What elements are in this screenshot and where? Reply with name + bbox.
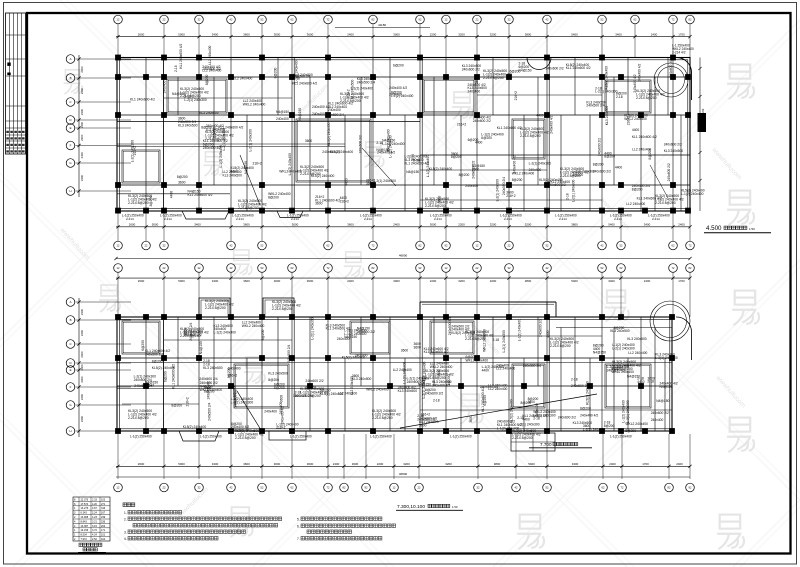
svg-text:3600: 3600 xyxy=(315,202,323,206)
svg-text:240x600 2/2: 240x600 2/2 xyxy=(539,319,543,337)
svg-text:3200: 3200 xyxy=(525,223,532,227)
svg-text:17.574: 17.574 xyxy=(81,503,89,506)
svg-text:2.24: 2.24 xyxy=(92,512,97,515)
svg-text:2-18: 2-18 xyxy=(647,380,654,384)
svg-text:240x500 2/4: 240x500 2/4 xyxy=(448,317,452,335)
svg-text:216+2: 216+2 xyxy=(457,122,466,126)
svg-text:8@200: 8@200 xyxy=(593,163,604,167)
svg-text:8@200: 8@200 xyxy=(152,359,163,363)
svg-text:KL5(2) 240x400: KL5(2) 240x400 xyxy=(152,366,176,370)
svg-text:3800: 3800 xyxy=(525,32,532,36)
svg-text:3600: 3600 xyxy=(243,32,250,36)
svg-text:3600: 3600 xyxy=(475,76,479,84)
svg-text:4400: 4400 xyxy=(344,178,348,186)
svg-text:4400: 4400 xyxy=(170,191,174,199)
svg-text:2200: 2200 xyxy=(430,279,437,283)
svg-text:3600: 3600 xyxy=(243,223,250,227)
svg-text:L-2(1) 240x300: L-2(1) 240x300 xyxy=(311,317,315,340)
svg-text:240x500 2/4: 240x500 2/4 xyxy=(199,377,217,381)
svg-text:271: 271 xyxy=(101,503,106,506)
svg-text:8@200: 8@200 xyxy=(227,367,231,378)
svg-text:4.24: 4.24 xyxy=(92,534,97,537)
svg-text:2-214 8@200: 2-214 8@200 xyxy=(205,306,226,310)
svg-text:B: B xyxy=(70,318,72,322)
svg-text:8@200: 8@200 xyxy=(512,178,523,182)
svg-text:240x500 2/4: 240x500 2/4 xyxy=(571,384,589,388)
svg-text:2.52: 2.52 xyxy=(92,538,97,541)
svg-text:4.23: 4.23 xyxy=(92,516,97,519)
svg-text:171: 171 xyxy=(101,529,106,532)
svg-text:8@200: 8@200 xyxy=(233,386,237,397)
svg-text:L-1(2) 250x400: L-1(2) 250x400 xyxy=(370,435,392,439)
svg-text:2400: 2400 xyxy=(80,108,84,115)
svg-text:3600: 3600 xyxy=(419,423,427,427)
svg-text:4.: 4. xyxy=(124,537,127,541)
svg-text:240x400: 240x400 xyxy=(465,184,478,188)
svg-text:2200: 2200 xyxy=(377,462,384,466)
svg-text:216+2: 216+2 xyxy=(514,91,518,100)
svg-text:46800: 46800 xyxy=(399,472,408,476)
svg-text:3600: 3600 xyxy=(469,415,473,423)
svg-text:3000: 3000 xyxy=(352,462,359,466)
svg-text:3800: 3800 xyxy=(494,462,501,466)
svg-text:8@200: 8@200 xyxy=(201,125,212,129)
svg-text:KL3 240x500: KL3 240x500 xyxy=(605,106,609,126)
svg-text:A: A xyxy=(70,57,72,61)
svg-text:240x500 2/4: 240x500 2/4 xyxy=(502,177,506,195)
svg-text:2-214 8@200: 2-214 8@200 xyxy=(425,204,446,208)
svg-text:103: 103 xyxy=(101,498,106,501)
svg-text:C: C xyxy=(69,100,71,104)
svg-text:3400: 3400 xyxy=(644,223,651,227)
svg-text:2-214: 2-214 xyxy=(434,217,442,221)
svg-text:L-2(1) 240x300: L-2(1) 240x300 xyxy=(184,98,207,102)
svg-text:216+2: 216+2 xyxy=(626,116,630,125)
svg-text:N4@150: N4@150 xyxy=(660,385,673,389)
svg-text:3600: 3600 xyxy=(307,279,314,283)
svg-text:2-214 8@200: 2-214 8@200 xyxy=(372,416,393,420)
svg-text:240x400: 240x400 xyxy=(162,80,166,93)
svg-text:8@200: 8@200 xyxy=(625,429,636,433)
svg-text:6@200: 6@200 xyxy=(141,340,145,351)
svg-text:8@200: 8@200 xyxy=(632,188,643,192)
svg-text:8@200: 8@200 xyxy=(614,326,625,330)
svg-text:216+2: 216+2 xyxy=(340,200,349,204)
svg-text:D: D xyxy=(69,361,71,365)
svg-text:2-214 8@200: 2-214 8@200 xyxy=(520,134,541,138)
svg-text:240x400 4/2: 240x400 4/2 xyxy=(512,155,516,173)
svg-text:KL1 240x600 4/2: KL1 240x600 4/2 xyxy=(179,44,183,69)
svg-text:2-214 8@200: 2-214 8@200 xyxy=(636,96,657,100)
svg-text:KL3 240x500: KL3 240x500 xyxy=(178,124,198,128)
svg-text:3600: 3600 xyxy=(347,223,354,227)
svg-text:KL1 240x600 4/2: KL1 240x600 4/2 xyxy=(292,81,317,85)
svg-text:KL1 240x600 4/2: KL1 240x600 4/2 xyxy=(130,98,155,102)
svg-text:E: E xyxy=(70,368,72,372)
svg-text:L-1(2) 250x400: L-1(2) 250x400 xyxy=(610,435,632,439)
svg-text:6@200: 6@200 xyxy=(393,64,404,68)
svg-text:KL3 240x500: KL3 240x500 xyxy=(664,149,684,153)
svg-text:6.: 6. xyxy=(297,525,300,529)
svg-text:2400: 2400 xyxy=(80,134,84,141)
svg-text:240x500 2/4: 240x500 2/4 xyxy=(523,364,541,368)
svg-text:LL2 240x400: LL2 240x400 xyxy=(632,148,651,152)
svg-text:240x600 2/2: 240x600 2/2 xyxy=(664,142,682,146)
svg-text:2600: 2600 xyxy=(129,223,136,227)
svg-text:240x400 4/2: 240x400 4/2 xyxy=(580,413,598,417)
svg-text:5.: 5. xyxy=(297,518,300,522)
svg-text:2-214 8@200: 2-214 8@200 xyxy=(465,337,486,341)
svg-text:3200: 3200 xyxy=(458,279,465,283)
svg-text:240x400: 240x400 xyxy=(264,409,277,413)
svg-text:L-2(1) 240x300: L-2(1) 240x300 xyxy=(248,129,252,152)
svg-text:240x400: 240x400 xyxy=(312,112,325,116)
svg-text:240x400 4/2: 240x400 4/2 xyxy=(203,146,221,150)
svg-text:2-214 8@200: 2-214 8@200 xyxy=(512,436,533,440)
svg-text:3400: 3400 xyxy=(615,32,622,36)
svg-text:240x600 2/2: 240x600 2/2 xyxy=(203,67,221,71)
svg-text:L-1(2) 240x400: L-1(2) 240x400 xyxy=(391,94,414,98)
svg-text:2-214: 2-214 xyxy=(164,217,172,221)
svg-text:2400: 2400 xyxy=(80,66,84,73)
svg-text:2-214 8@200: 2-214 8@200 xyxy=(612,367,633,371)
svg-text:2400: 2400 xyxy=(347,279,354,283)
svg-text:240x600 2/2: 240x600 2/2 xyxy=(305,379,323,383)
svg-text:2-18: 2-18 xyxy=(571,377,578,381)
svg-text:2-18: 2-18 xyxy=(174,65,178,72)
svg-text:2-214 8@200: 2-214 8@200 xyxy=(300,172,321,176)
svg-text:N4@150: N4@150 xyxy=(244,161,248,174)
svg-text:3000: 3000 xyxy=(393,32,400,36)
svg-text:202: 202 xyxy=(101,525,106,528)
svg-text:240x500 2/4: 240x500 2/4 xyxy=(586,104,604,108)
svg-text:3000: 3000 xyxy=(274,462,281,466)
svg-text:167: 167 xyxy=(101,512,106,515)
svg-text:5400: 5400 xyxy=(571,32,578,36)
svg-text:KL3 240x500: KL3 240x500 xyxy=(203,366,223,370)
svg-text:2-18: 2-18 xyxy=(433,399,440,403)
svg-text:3200: 3200 xyxy=(490,279,497,283)
svg-text:L-2(1) 240x300: L-2(1) 240x300 xyxy=(502,330,506,353)
svg-text:240x600 2/2: 240x600 2/2 xyxy=(548,183,566,187)
svg-text:2-214: 2-214 xyxy=(364,217,372,221)
svg-text:240x600 2/2: 240x600 2/2 xyxy=(462,67,480,71)
svg-text:240x400: 240x400 xyxy=(468,90,481,94)
svg-text:2400: 2400 xyxy=(80,152,84,159)
svg-text:KL5(2) 240x400: KL5(2) 240x400 xyxy=(510,399,514,423)
svg-text:240x400 4/2: 240x400 4/2 xyxy=(637,63,641,81)
svg-text:2400: 2400 xyxy=(651,32,658,36)
svg-text:1.: 1. xyxy=(124,511,127,515)
svg-text:1:50: 1:50 xyxy=(452,505,458,509)
svg-text:7.700: 7.700 xyxy=(540,442,552,447)
svg-text:7.300,10.100: 7.300,10.100 xyxy=(397,504,425,510)
svg-text:2400: 2400 xyxy=(80,174,84,181)
svg-text:2200: 2200 xyxy=(458,223,465,227)
svg-text:240x600 2/2: 240x600 2/2 xyxy=(357,330,375,334)
svg-text:3600: 3600 xyxy=(243,462,250,466)
svg-text:G: G xyxy=(69,161,71,165)
svg-text:249: 249 xyxy=(101,516,106,519)
svg-text:240x600 2/2: 240x600 2/2 xyxy=(473,119,491,123)
svg-text:KL5(2) 240x400: KL5(2) 240x400 xyxy=(429,167,453,171)
svg-text:N4@150: N4@150 xyxy=(406,170,419,174)
svg-text:2400: 2400 xyxy=(80,308,84,315)
svg-text:LL2 240x400: LL2 240x400 xyxy=(626,202,645,206)
svg-text:6@200: 6@200 xyxy=(481,136,492,140)
svg-text:KL5(2) 240x400: KL5(2) 240x400 xyxy=(183,425,207,429)
svg-text:3000: 3000 xyxy=(274,279,281,283)
svg-text:12.373: 12.373 xyxy=(81,498,89,501)
svg-text:N4@150: N4@150 xyxy=(199,341,203,354)
svg-text:240x600 2/2: 240x600 2/2 xyxy=(358,135,362,153)
svg-text:240x500 2/4: 240x500 2/4 xyxy=(357,81,375,85)
svg-text:2200: 2200 xyxy=(430,32,437,36)
svg-text:240x400 4/2: 240x400 4/2 xyxy=(207,381,211,399)
svg-text:3200: 3200 xyxy=(458,32,465,36)
svg-text:L-2(1) 240x300: L-2(1) 240x300 xyxy=(655,356,678,360)
svg-text:216+2: 216+2 xyxy=(421,412,430,416)
svg-text:C: C xyxy=(69,342,71,346)
svg-text:3.21: 3.21 xyxy=(92,520,97,523)
svg-text:2-214 8@200: 2-214 8@200 xyxy=(238,206,259,210)
svg-text:240x600 2/2: 240x600 2/2 xyxy=(322,150,340,154)
svg-text:L-1(2) 240x400: L-1(2) 240x400 xyxy=(214,331,237,335)
svg-text:8@200: 8@200 xyxy=(268,196,279,200)
svg-text:8@200: 8@200 xyxy=(171,403,182,407)
svg-text:4.67: 4.67 xyxy=(92,507,97,510)
svg-text:8@200: 8@200 xyxy=(177,175,188,179)
svg-text:N4@150: N4@150 xyxy=(656,399,669,403)
svg-text:240x600 2/2: 240x600 2/2 xyxy=(651,411,669,415)
svg-text:2-214 8@200: 2-214 8@200 xyxy=(128,416,149,420)
svg-text:3600: 3600 xyxy=(528,400,536,404)
svg-text:3600: 3600 xyxy=(414,346,422,350)
svg-text:8@200: 8@200 xyxy=(604,424,615,428)
svg-text:H: H xyxy=(69,429,71,433)
svg-text:216+2: 216+2 xyxy=(253,161,262,165)
svg-text:KL5(2) 240x400: KL5(2) 240x400 xyxy=(342,356,366,360)
svg-text:240x500 2/4: 240x500 2/4 xyxy=(287,344,291,362)
svg-text:2-18: 2-18 xyxy=(566,193,570,200)
svg-text:240x500 2/4: 240x500 2/4 xyxy=(326,113,344,117)
svg-text:2400: 2400 xyxy=(80,329,84,336)
svg-text:2400: 2400 xyxy=(678,223,685,227)
svg-text:5400: 5400 xyxy=(528,462,535,466)
svg-text:4400: 4400 xyxy=(637,380,645,384)
svg-text:6@200: 6@200 xyxy=(468,138,479,142)
svg-text:2600: 2600 xyxy=(138,279,145,283)
svg-text:8@200: 8@200 xyxy=(274,67,278,78)
svg-text:1:50: 1:50 xyxy=(749,227,755,231)
svg-text:3400: 3400 xyxy=(608,279,615,283)
svg-text:2-214 8@200: 2-214 8@200 xyxy=(272,307,293,311)
svg-text:236: 236 xyxy=(101,520,106,523)
svg-text:3400: 3400 xyxy=(212,32,219,36)
svg-text:5000: 5000 xyxy=(178,462,185,466)
svg-text:3.: 3. xyxy=(124,531,127,535)
svg-text:216+2: 216+2 xyxy=(145,384,154,388)
svg-text:7.: 7. xyxy=(297,537,300,541)
svg-text:L-1(2) 240x400: L-1(2) 240x400 xyxy=(517,319,521,342)
svg-text:3.72: 3.72 xyxy=(92,529,97,532)
svg-text:N4@150: N4@150 xyxy=(298,108,302,121)
svg-text:2-214: 2-214 xyxy=(126,217,134,221)
svg-text:2-214 8@200: 2-214 8@200 xyxy=(550,344,571,348)
svg-text:L-1(2) 240x400: L-1(2) 240x400 xyxy=(295,60,299,83)
svg-text:L-2(1) 240x300: L-2(1) 240x300 xyxy=(529,161,552,165)
svg-text:G: G xyxy=(69,403,71,407)
svg-text:L-2(1) 240x300: L-2(1) 240x300 xyxy=(583,428,606,432)
svg-text:4400: 4400 xyxy=(632,128,640,132)
svg-text:8@200: 8@200 xyxy=(451,155,462,159)
svg-text:WKL2 240x400: WKL2 240x400 xyxy=(242,324,265,328)
svg-text:240x400: 240x400 xyxy=(328,108,341,112)
svg-text:3800: 3800 xyxy=(525,279,532,283)
svg-text:8@200: 8@200 xyxy=(459,173,470,177)
svg-text:KL1 240x600 4/2: KL1 240x600 4/2 xyxy=(497,126,522,130)
svg-text:2.33: 2.33 xyxy=(92,498,97,501)
svg-text:240x400: 240x400 xyxy=(279,402,283,415)
svg-text:6.343: 6.343 xyxy=(81,512,88,515)
svg-text:2-214 8@200: 2-214 8@200 xyxy=(205,137,226,141)
svg-text:A: A xyxy=(70,300,72,304)
svg-text:2400: 2400 xyxy=(347,32,354,36)
svg-text:2-214 4/2: 2-214 4/2 xyxy=(672,51,686,55)
svg-text:2-214 8@200: 2-214 8@200 xyxy=(655,201,676,205)
svg-text:3000: 3000 xyxy=(430,223,437,227)
svg-text:8@200: 8@200 xyxy=(268,378,279,382)
svg-text:240x400 4/2: 240x400 4/2 xyxy=(432,384,450,388)
svg-text:KL3 240x500: KL3 240x500 xyxy=(223,173,243,177)
svg-text:240x600 2/2: 240x600 2/2 xyxy=(667,163,671,181)
svg-text:3600: 3600 xyxy=(307,462,314,466)
svg-text:2400: 2400 xyxy=(644,279,651,283)
svg-text:LL2 240x400: LL2 240x400 xyxy=(488,387,507,391)
svg-text:13.908: 13.908 xyxy=(81,516,89,519)
svg-text:2600: 2600 xyxy=(138,462,145,466)
svg-text:L-2(1) 240x300: L-2(1) 240x300 xyxy=(595,90,618,94)
svg-text:KL3 240x500: KL3 240x500 xyxy=(199,111,219,115)
svg-text:41180: 41180 xyxy=(378,23,386,27)
svg-text:2-214: 2-214 xyxy=(236,217,244,221)
svg-text:4.500: 4.500 xyxy=(706,225,722,232)
svg-text:216+2: 216+2 xyxy=(276,426,285,430)
svg-text:L-2(1) 240x300: L-2(1) 240x300 xyxy=(374,179,397,183)
svg-text:2400: 2400 xyxy=(393,223,400,227)
svg-text:2-18: 2-18 xyxy=(493,338,500,342)
svg-text:6@200: 6@200 xyxy=(580,407,591,411)
svg-text:L-2(1) 240x300: L-2(1) 240x300 xyxy=(572,179,576,202)
svg-text:N4@150: N4@150 xyxy=(276,110,289,114)
svg-text:2400: 2400 xyxy=(80,393,84,400)
svg-text:H: H xyxy=(69,189,71,193)
svg-text:2-214 8@200: 2-214 8@200 xyxy=(128,201,149,205)
svg-text:104: 104 xyxy=(101,538,106,541)
svg-text:4.20: 4.20 xyxy=(92,503,97,506)
svg-text:L-1(2) 250x400: L-1(2) 250x400 xyxy=(290,435,312,439)
svg-text:3200: 3200 xyxy=(490,223,497,227)
svg-text:L-1(2) 240x400: L-1(2) 240x400 xyxy=(681,192,704,196)
svg-text:6@200: 6@200 xyxy=(274,386,285,390)
svg-text:2.: 2. xyxy=(124,518,127,522)
svg-text:2400: 2400 xyxy=(676,462,683,466)
svg-text:2-214 8@200: 2-214 8@200 xyxy=(180,334,201,338)
svg-text:WKL2 240x400: WKL2 240x400 xyxy=(625,422,648,426)
svg-text:3.15: 3.15 xyxy=(92,525,97,528)
svg-text:240x400: 240x400 xyxy=(276,117,289,121)
svg-text:4400: 4400 xyxy=(536,113,544,117)
svg-text:1700: 1700 xyxy=(642,462,649,466)
svg-text:F: F xyxy=(70,144,72,148)
svg-text:13.387: 13.387 xyxy=(81,525,89,528)
svg-text:101: 101 xyxy=(101,534,106,537)
svg-text:216+2: 216+2 xyxy=(133,146,137,155)
svg-text:3000: 3000 xyxy=(393,279,400,283)
svg-text:WKL2 240x400: WKL2 240x400 xyxy=(466,358,489,362)
svg-text:2-18: 2-18 xyxy=(517,416,524,420)
svg-text:L-1(2) 250x400: L-1(2) 250x400 xyxy=(130,435,152,439)
svg-text:2400: 2400 xyxy=(333,462,340,466)
svg-text:8@200: 8@200 xyxy=(261,329,265,340)
svg-text:3000: 3000 xyxy=(292,223,299,227)
svg-text:KL1 240x600 4/2: KL1 240x600 4/2 xyxy=(326,327,351,331)
svg-text:L-2(1) 240x300: L-2(1) 240x300 xyxy=(517,423,540,427)
svg-text:2400: 2400 xyxy=(80,351,84,358)
svg-text:2-214 8@200: 2-214 8@200 xyxy=(300,394,321,398)
svg-text:240x400 4/2: 240x400 4/2 xyxy=(550,115,554,133)
svg-text:L-1(2) 240x400: L-1(2) 240x400 xyxy=(621,400,625,423)
svg-text:216+2: 216+2 xyxy=(506,194,515,198)
svg-text:2-18: 2-18 xyxy=(533,417,540,421)
svg-text:KL3 240x500: KL3 240x500 xyxy=(627,337,647,341)
svg-text:240x600 2/2: 240x600 2/2 xyxy=(471,160,475,178)
svg-text:LL2 240x400: LL2 240x400 xyxy=(393,368,412,372)
svg-text:2-214 8@200: 2-214 8@200 xyxy=(235,436,256,440)
svg-text:N4@150: N4@150 xyxy=(344,335,357,339)
svg-text:240x600 2/2: 240x600 2/2 xyxy=(425,392,443,396)
svg-text:240x600 2/2: 240x600 2/2 xyxy=(593,169,611,173)
svg-text:5400: 5400 xyxy=(608,223,615,227)
svg-text:240x600 2/2: 240x600 2/2 xyxy=(669,59,673,77)
svg-text:3200: 3200 xyxy=(490,32,497,36)
svg-text:KL3 240x500: KL3 240x500 xyxy=(398,389,418,393)
svg-text:3400: 3400 xyxy=(572,462,579,466)
svg-text:WKL2 240x400: WKL2 240x400 xyxy=(230,77,253,81)
svg-text:KL3 240x500: KL3 240x500 xyxy=(268,371,288,375)
svg-text:KL5(2) 240x400: KL5(2) 240x400 xyxy=(327,122,331,146)
svg-text:240x400 4/2: 240x400 4/2 xyxy=(377,151,395,155)
svg-text:3400: 3400 xyxy=(194,223,201,227)
svg-text:240x600 2/2: 240x600 2/2 xyxy=(558,416,576,420)
svg-text:2-214: 2-214 xyxy=(559,217,567,221)
svg-text:240x400: 240x400 xyxy=(651,418,664,422)
svg-text:3000: 3000 xyxy=(274,32,281,36)
svg-text:6@200: 6@200 xyxy=(164,371,168,382)
svg-text:KL5(2) 240x400: KL5(2) 240x400 xyxy=(605,66,609,90)
svg-text:3600: 3600 xyxy=(280,395,284,403)
svg-text:3400: 3400 xyxy=(212,462,219,466)
svg-text:2-18: 2-18 xyxy=(616,95,623,99)
svg-text:240x600 2/2: 240x600 2/2 xyxy=(598,138,602,156)
svg-text:3600: 3600 xyxy=(243,279,250,283)
svg-text:3400: 3400 xyxy=(212,279,219,283)
svg-text:2400: 2400 xyxy=(609,462,616,466)
svg-text:L-1(2) 240x400: L-1(2) 240x400 xyxy=(382,142,405,146)
svg-text:L-1(2) 250x400: L-1(2) 250x400 xyxy=(450,435,472,439)
svg-text:L-2(1) 240x300: L-2(1) 240x300 xyxy=(612,347,635,351)
svg-text:240x500 2/4: 240x500 2/4 xyxy=(292,75,310,79)
